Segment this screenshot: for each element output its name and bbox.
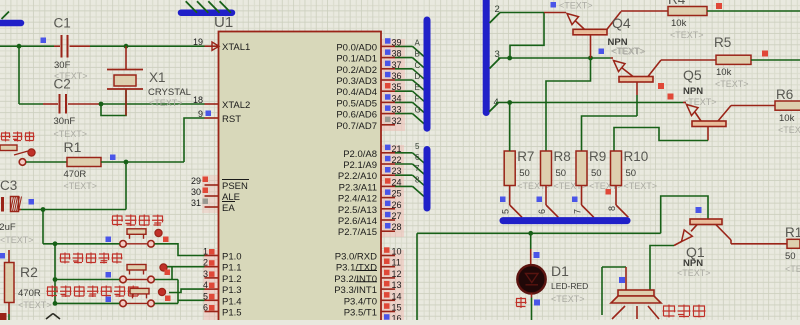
svg-text:P1.2: P1.2: [222, 274, 242, 285]
svg-text:30F: 30F: [54, 60, 71, 71]
svg-text:P3.3/INT1: P3.3/INT1: [334, 285, 377, 296]
svg-text:<TEXT>: <TEXT>: [624, 181, 658, 191]
svg-text:P2.6/A14: P2.6/A14: [338, 216, 377, 227]
svg-text:XTAL2: XTAL2: [222, 100, 250, 111]
svg-text:22uF: 22uF: [0, 222, 16, 233]
svg-text:R7: R7: [517, 149, 534, 164]
svg-text:P0.3/AD3: P0.3/AD3: [336, 76, 377, 87]
svg-text:P2.2/A10: P2.2/A10: [338, 171, 377, 182]
svg-text:10k: 10k: [716, 67, 732, 78]
svg-text:P0.7/AD7: P0.7/AD7: [336, 121, 377, 132]
svg-text:P0.2/AD2: P0.2/AD2: [336, 65, 377, 76]
svg-text:C3: C3: [0, 178, 17, 193]
svg-text:8: 8: [415, 175, 420, 184]
svg-text:<TEXT>: <TEXT>: [559, 1, 593, 11]
svg-text:5: 5: [501, 209, 511, 214]
svg-text:R2: R2: [20, 264, 38, 280]
svg-text:6: 6: [537, 209, 547, 214]
svg-text:<TEXT>: <TEXT>: [670, 30, 704, 40]
svg-text:30: 30: [191, 187, 201, 197]
svg-text:<TEXT>: <TEXT>: [64, 181, 98, 191]
svg-text:50: 50: [626, 168, 637, 179]
svg-text:P3.2/INT0: P3.2/INT0: [334, 274, 377, 285]
svg-text:P3.1/TXD: P3.1/TXD: [336, 263, 377, 274]
svg-text:7: 7: [573, 209, 583, 214]
svg-text:<TEXT>: <TEXT>: [551, 294, 585, 304]
svg-text:6: 6: [415, 153, 420, 162]
svg-text:P0.5/AD5: P0.5/AD5: [336, 98, 377, 109]
svg-text:B: B: [415, 50, 420, 59]
svg-text:D: D: [415, 72, 421, 81]
svg-text:R1: R1: [64, 139, 82, 155]
svg-text:<TEXT>: <TEXT>: [0, 235, 34, 245]
svg-text:30nF: 30nF: [54, 116, 76, 127]
svg-text:8: 8: [607, 206, 617, 211]
svg-text:P2.7/A15: P2.7/A15: [338, 227, 377, 238]
svg-text:25: 25: [392, 189, 402, 199]
svg-text:P0.4/AD4: P0.4/AD4: [336, 87, 377, 98]
svg-text:11: 11: [392, 258, 401, 268]
svg-text:NPN: NPN: [683, 86, 703, 97]
svg-text:13: 13: [392, 280, 402, 290]
svg-text:P2.0/A8: P2.0/A8: [343, 149, 377, 160]
svg-text:CRYSTAL: CRYSTAL: [148, 87, 191, 98]
svg-text:3: 3: [203, 269, 208, 279]
svg-text:2: 2: [495, 4, 500, 15]
svg-text:A: A: [415, 38, 421, 47]
svg-text:R8: R8: [554, 149, 571, 164]
svg-text:50: 50: [556, 168, 567, 179]
svg-text:P0.6/AD6: P0.6/AD6: [336, 110, 377, 121]
svg-text:10k: 10k: [779, 113, 795, 124]
svg-text:26: 26: [392, 200, 402, 210]
svg-text:U1: U1: [214, 14, 233, 31]
svg-text:29: 29: [191, 176, 201, 186]
svg-text:10: 10: [392, 247, 402, 257]
svg-text:14: 14: [392, 291, 402, 301]
svg-text:<TEXT>: <TEXT>: [54, 129, 88, 139]
svg-text:D1: D1: [551, 263, 569, 279]
svg-text:10k: 10k: [671, 18, 687, 29]
svg-text:PSEN: PSEN: [222, 181, 248, 192]
svg-text:R4: R4: [668, 0, 686, 7]
svg-text:C: C: [415, 61, 421, 70]
svg-text:Q5: Q5: [683, 67, 702, 83]
svg-text:31: 31: [191, 198, 201, 208]
svg-text:R5: R5: [714, 35, 731, 50]
svg-text:<TEXT>: <TEXT>: [149, 98, 183, 108]
svg-text:P2.1/A9: P2.1/A9: [343, 160, 377, 171]
svg-text:<TEXT>: <TEXT>: [715, 79, 749, 89]
svg-text:50: 50: [519, 168, 530, 179]
svg-text:<TEXT>: <TEXT>: [778, 125, 800, 135]
svg-text:R10: R10: [624, 149, 649, 164]
svg-text:P1.0: P1.0: [222, 252, 242, 263]
svg-text:<TEXT>: <TEXT>: [785, 264, 800, 274]
svg-text:LED-RED: LED-RED: [551, 281, 588, 291]
svg-text:E: E: [415, 83, 420, 92]
svg-text:32: 32: [392, 116, 402, 126]
svg-text:R11: R11: [785, 225, 800, 240]
svg-text:P3.5/T1: P3.5/T1: [344, 308, 377, 319]
svg-text:6: 6: [203, 303, 208, 313]
svg-text:5: 5: [415, 142, 420, 151]
svg-text:P1.3: P1.3: [222, 285, 242, 296]
svg-text:P1.4: P1.4: [222, 296, 242, 307]
svg-text:P2.5/A13: P2.5/A13: [338, 205, 377, 216]
svg-text:50: 50: [785, 251, 796, 262]
svg-text:12: 12: [392, 269, 402, 279]
svg-text:C1: C1: [54, 16, 71, 31]
svg-text:28: 28: [392, 222, 402, 232]
svg-text:15: 15: [392, 303, 402, 313]
svg-text:470R: 470R: [64, 169, 87, 180]
svg-text:P2.3/A11: P2.3/A11: [339, 182, 377, 193]
svg-text:Q4: Q4: [612, 15, 631, 31]
svg-text:RST: RST: [222, 114, 241, 125]
svg-text:16: 16: [392, 314, 402, 320]
svg-text:27: 27: [392, 211, 402, 221]
svg-text:P3.0/RXD: P3.0/RXD: [335, 252, 377, 263]
svg-text:<TEXT>: <TEXT>: [677, 268, 711, 278]
svg-text:7: 7: [415, 164, 420, 173]
svg-text:EA: EA: [222, 203, 235, 214]
svg-text:P3.4/T0: P3.4/T0: [344, 296, 377, 307]
svg-text:<TEXT>: <TEXT>: [612, 47, 646, 57]
svg-text:G: G: [415, 106, 421, 115]
svg-text:X1: X1: [149, 70, 166, 85]
svg-text:P2.4/A12: P2.4/A12: [338, 194, 377, 205]
svg-text:P1.1: P1.1: [222, 263, 242, 274]
svg-text:50: 50: [591, 168, 602, 179]
svg-text:C2: C2: [54, 77, 71, 92]
svg-text:P1.5: P1.5: [222, 308, 242, 319]
svg-text:R9: R9: [589, 149, 606, 164]
svg-text:XTAL1: XTAL1: [222, 42, 250, 53]
svg-text:470R: 470R: [18, 288, 41, 299]
svg-text:F: F: [415, 94, 420, 103]
svg-text:P0.1/AD1: P0.1/AD1: [336, 54, 377, 65]
svg-text:<TEXT>: <TEXT>: [18, 300, 52, 310]
svg-text:R6: R6: [776, 87, 793, 102]
svg-text:P0.0/AD0: P0.0/AD0: [336, 42, 377, 53]
